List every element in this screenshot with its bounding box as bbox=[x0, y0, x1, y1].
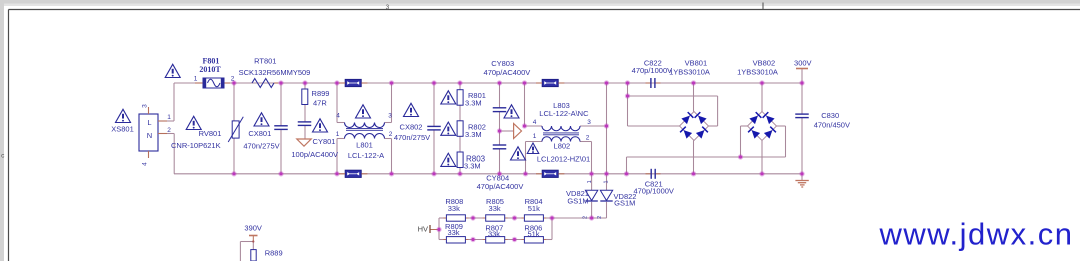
wire VB802 dc+ vert bbox=[761, 83, 763, 112]
svg-text:R899: R899 bbox=[312, 89, 330, 98]
warning triangle CY804b bbox=[511, 147, 526, 160]
label C821 value bbox=[633, 186, 673, 195]
warning triangle CX802 bbox=[404, 103, 419, 116]
node HV r3 bbox=[549, 215, 554, 220]
svg-text:51k: 51k bbox=[528, 204, 540, 213]
node VD821 bottom bbox=[589, 215, 594, 220]
svg-text:L: L bbox=[147, 118, 151, 127]
svg-text:2010T: 2010T bbox=[199, 65, 221, 74]
label R804 bbox=[525, 197, 543, 206]
wire top bus bbox=[174, 82, 802, 84]
label L802 pin2 bbox=[586, 134, 590, 141]
wire VB801 dc- vert bbox=[693, 141, 695, 174]
fusible link on top bus B2 bbox=[536, 79, 564, 86]
label VD822 value bbox=[614, 199, 635, 208]
thermistor RT801 bbox=[252, 79, 274, 88]
node ac1 corner bbox=[625, 93, 630, 98]
label VD821 bbox=[566, 189, 589, 198]
wire HV row bottom bbox=[439, 239, 552, 241]
capacitor C830 bbox=[795, 114, 809, 118]
svg-text:VB802: VB802 bbox=[753, 58, 776, 67]
warning triangle F801 bbox=[165, 64, 180, 77]
label CY804 value bbox=[477, 182, 524, 191]
svg-text:470p/1000V: 470p/1000V bbox=[632, 66, 672, 75]
svg-text:HV: HV bbox=[418, 225, 428, 234]
label VD822 pin2 bbox=[597, 216, 603, 219]
wire R899-CY801 branch bbox=[304, 83, 306, 139]
svg-text:3.3M: 3.3M bbox=[465, 130, 482, 139]
pin stub C822 sides bbox=[646, 82, 661, 84]
wire VB802 left frame bbox=[741, 126, 748, 157]
label C830 bbox=[821, 111, 839, 120]
resistor R899 bbox=[302, 89, 308, 105]
node pin3/VD822 bbox=[604, 123, 609, 128]
label RV801 bbox=[199, 129, 222, 138]
diode VD821 bbox=[585, 190, 597, 201]
wire HV port lead bbox=[430, 229, 439, 231]
wire L801 pin4 vert bbox=[337, 83, 345, 123]
svg-text:470n/275V: 470n/275V bbox=[243, 141, 279, 150]
wire node mid to arrow bbox=[500, 130, 514, 132]
svg-text:SCK132R56MMY509: SCK132R56MMY509 bbox=[239, 68, 311, 77]
label F801 pin2 bbox=[231, 75, 235, 82]
fuse F801 bbox=[203, 78, 224, 88]
svg-text:c: c bbox=[1, 153, 5, 160]
wire L802 pin2 lead bbox=[580, 142, 592, 174]
wire VD822 column bbox=[606, 83, 608, 190]
wire CY803-CY804 chain bbox=[499, 83, 501, 174]
svg-text:1YBS3010A: 1YBS3010A bbox=[669, 68, 710, 77]
capacitor CY803 bbox=[493, 108, 507, 112]
svg-text:1: 1 bbox=[167, 114, 171, 121]
wire L801 pin1 vert bbox=[337, 139, 345, 174]
label R899 value bbox=[313, 98, 327, 107]
fusible link on bottom bus B3 bbox=[339, 170, 367, 177]
label L801 pin2 bbox=[389, 131, 393, 138]
svg-text:470p/1000V: 470p/1000V bbox=[633, 186, 673, 195]
label XS801 pin4 bbox=[142, 162, 149, 166]
wire C830 branch bbox=[801, 83, 803, 180]
fusible link on bottom bus B4 bbox=[536, 170, 564, 177]
resistor R889 bbox=[251, 250, 256, 261]
capacitor CX801 bbox=[274, 126, 288, 130]
warning triangle CY801 bbox=[313, 119, 328, 132]
label CY801 bbox=[313, 137, 336, 146]
warning triangle L801 bbox=[356, 105, 371, 118]
label R808 bbox=[445, 197, 463, 206]
svg-text:2: 2 bbox=[389, 131, 393, 138]
label F801 pin1 bbox=[194, 75, 198, 82]
label F801 bbox=[203, 57, 220, 66]
svg-text:2: 2 bbox=[597, 216, 603, 219]
label C821 bbox=[645, 179, 663, 188]
wire 300V drop bbox=[801, 69, 803, 84]
label R801 value bbox=[465, 99, 482, 108]
label R809 bbox=[445, 222, 463, 231]
resistor R805 bbox=[486, 215, 505, 221]
choke L801 core bbox=[346, 128, 383, 130]
wire VB801 ac1 branch bbox=[628, 83, 718, 126]
svg-text:3.3M: 3.3M bbox=[465, 99, 482, 108]
warning triangle L802 bbox=[527, 143, 539, 154]
svg-text:2: 2 bbox=[583, 216, 589, 219]
label C822 bbox=[644, 58, 662, 67]
capacitor CX802 bbox=[427, 126, 441, 129]
svg-text:470p/AC400V: 470p/AC400V bbox=[477, 182, 524, 191]
label CX802 value bbox=[394, 133, 430, 142]
label CX801 bbox=[248, 129, 271, 138]
wire CX802 branch bbox=[433, 83, 435, 174]
label XS801 pin2 bbox=[167, 127, 171, 134]
label L801 bbox=[356, 141, 373, 150]
label VD821 pin1 bbox=[587, 180, 593, 183]
choke L801 top winding bbox=[345, 123, 385, 128]
resistor R807 bbox=[486, 237, 505, 243]
pin stubs HV resistors bbox=[443, 218, 546, 240]
svg-text:1: 1 bbox=[603, 180, 609, 183]
label L801 pin3 bbox=[388, 113, 392, 120]
svg-text:LCL-122-A: LCL-122-A bbox=[348, 151, 384, 160]
svg-text:RV801: RV801 bbox=[199, 129, 222, 138]
watermark bbox=[879, 217, 1074, 252]
label XS801 pin3 bbox=[142, 104, 149, 108]
label R803 value bbox=[464, 162, 481, 171]
label R807 value bbox=[488, 230, 500, 239]
svg-text:4: 4 bbox=[142, 162, 149, 166]
wire input N loop bbox=[167, 134, 174, 174]
svg-text:2: 2 bbox=[231, 75, 235, 82]
pin stub RT801 bbox=[274, 82, 278, 84]
label R808 value bbox=[448, 204, 460, 213]
svg-text:300V: 300V bbox=[794, 59, 812, 68]
svg-text:VB801: VB801 bbox=[685, 58, 708, 67]
svg-text:470n/450V: 470n/450V bbox=[814, 120, 850, 129]
label RT801 bbox=[254, 57, 276, 66]
label CY801 value bbox=[291, 150, 338, 159]
label RV801 value bbox=[171, 141, 221, 150]
label VB802 bbox=[753, 58, 776, 67]
wire HV right vert bbox=[551, 218, 553, 240]
svg-text:470n/275V: 470n/275V bbox=[394, 133, 430, 142]
wire L801 pin2 vert bbox=[385, 139, 392, 174]
label VB801 value bbox=[669, 68, 710, 77]
node HV port bbox=[436, 227, 441, 232]
svg-text:51k: 51k bbox=[527, 230, 539, 239]
earth ground bbox=[795, 181, 808, 188]
label C830 value bbox=[814, 120, 850, 129]
node CY mid bbox=[497, 128, 502, 133]
svg-text:LCL-122-A\NC: LCL-122-A\NC bbox=[539, 109, 589, 118]
label R805 bbox=[486, 197, 504, 206]
wire R801-R803 chain bbox=[459, 83, 461, 174]
svg-text:1: 1 bbox=[336, 131, 340, 138]
label VD821 pin2 bbox=[583, 216, 589, 219]
svg-text:2: 2 bbox=[586, 134, 590, 141]
svg-text:3: 3 bbox=[142, 104, 149, 108]
label R806 bbox=[524, 223, 542, 232]
wire VB801 dc+ vert bbox=[693, 83, 695, 112]
resistor R809 bbox=[446, 237, 465, 243]
warning triangle R801 bbox=[441, 91, 456, 104]
wire VD822 bottom lead bbox=[606, 202, 608, 218]
zone label c bbox=[1, 153, 5, 160]
label VB802 value bbox=[737, 68, 778, 77]
svg-text:L801: L801 bbox=[356, 141, 373, 150]
label R805 value bbox=[489, 204, 501, 213]
resistor R802 bbox=[457, 121, 463, 137]
svg-text:33k: 33k bbox=[488, 230, 500, 239]
svg-text:1: 1 bbox=[194, 75, 198, 82]
wire RV801 branch bbox=[233, 83, 235, 174]
choke L803 winding bbox=[542, 126, 580, 131]
resistor R803 bbox=[457, 152, 463, 168]
signal arrow bbox=[514, 124, 522, 139]
label R889 bbox=[265, 249, 283, 258]
label L802 value bbox=[537, 155, 590, 164]
label L801 value bbox=[348, 151, 384, 160]
label L802 pin1 bbox=[533, 133, 537, 140]
warning triangle CX801 bbox=[254, 113, 269, 126]
label R802 value bbox=[465, 130, 482, 139]
node VB802 frame bbox=[738, 154, 743, 159]
label CY804 bbox=[486, 173, 509, 182]
label L801 pin4 bbox=[336, 113, 340, 120]
diode VD822 bbox=[600, 190, 612, 201]
connector XS801 bbox=[139, 107, 167, 158]
label RT801 value bbox=[239, 68, 311, 77]
label L802 bbox=[554, 142, 571, 151]
svg-text:GS1M: GS1M bbox=[567, 197, 588, 206]
label L803 bbox=[553, 101, 570, 110]
earth arrow CY801 bbox=[297, 139, 311, 146]
svg-text:CY801: CY801 bbox=[313, 137, 336, 146]
label CX801 value bbox=[243, 141, 279, 150]
wire L803 pin4 feed bbox=[525, 83, 543, 126]
wire L801 pin3 vert bbox=[385, 83, 392, 123]
node L803 pin4 bbox=[522, 123, 527, 128]
svg-text:C830: C830 bbox=[821, 111, 839, 120]
svg-text:33k: 33k bbox=[489, 204, 501, 213]
wire bottom bus bbox=[174, 173, 802, 175]
label L803 pin4 bbox=[533, 119, 537, 126]
svg-text:3: 3 bbox=[386, 4, 390, 11]
zone label 3 bbox=[386, 3, 763, 11]
choke core L803-L802 bbox=[543, 133, 579, 135]
label CY803 value bbox=[484, 68, 531, 77]
label XS801 pin1 bbox=[167, 114, 171, 121]
pin stub fuse left bbox=[195, 82, 203, 84]
label C822 value bbox=[632, 66, 672, 75]
svg-text:2: 2 bbox=[167, 127, 171, 134]
wire C821 bypass loop bbox=[627, 157, 786, 174]
svg-text:www.jdwx.cn: www.jdwx.cn bbox=[879, 217, 1074, 252]
wire HV split vert bbox=[438, 218, 440, 240]
warning triangle R803 bbox=[441, 153, 456, 166]
svg-text:1: 1 bbox=[587, 180, 593, 183]
capacitor C821 bbox=[651, 169, 655, 179]
wire VB802 right frame bbox=[777, 126, 786, 157]
warning triangle XS801 bbox=[116, 109, 131, 122]
label VD822 bbox=[614, 192, 637, 201]
wire VB801 ac2 branch bbox=[628, 125, 680, 127]
wire 390V drop bbox=[252, 236, 254, 242]
wire L803 pin3 lead bbox=[580, 125, 607, 127]
svg-text:47R: 47R bbox=[313, 98, 327, 107]
power port 390V bbox=[244, 223, 262, 235]
label VB801 bbox=[685, 58, 708, 67]
resistor R804 bbox=[524, 215, 543, 221]
svg-text:3: 3 bbox=[587, 119, 591, 126]
svg-text:33k: 33k bbox=[448, 204, 460, 213]
bridge rectifier VB802 bbox=[748, 112, 777, 141]
choke L802 winding bbox=[542, 137, 580, 142]
svg-text:XS801: XS801 bbox=[111, 125, 134, 134]
label CX802 bbox=[400, 122, 423, 131]
choke L801 bottom winding bbox=[345, 134, 385, 139]
svg-text:RT801: RT801 bbox=[254, 57, 276, 66]
svg-text:CX801: CX801 bbox=[248, 129, 271, 138]
svg-text:CX802: CX802 bbox=[400, 122, 423, 131]
label VD822 pin1 bbox=[603, 180, 609, 183]
svg-text:LCL2012-HZ\01: LCL2012-HZ\01 bbox=[537, 155, 590, 164]
capacitor CY804 bbox=[493, 145, 507, 149]
wire L802 pin1 vert bbox=[526, 142, 543, 174]
fusible link on top bus B1 bbox=[339, 79, 367, 86]
bridge rectifier VB801 bbox=[680, 112, 709, 141]
warning triangle R802 bbox=[441, 122, 456, 135]
node HV r2 bbox=[512, 215, 517, 242]
capacitor C822 bbox=[651, 78, 655, 88]
svg-text:33k: 33k bbox=[447, 228, 459, 237]
port HV bbox=[418, 225, 430, 234]
resistor R806 bbox=[524, 237, 543, 243]
svg-text:3.3M: 3.3M bbox=[464, 162, 481, 171]
resistor R808 bbox=[446, 215, 465, 221]
svg-text:GS1M: GS1M bbox=[614, 199, 635, 208]
capacitor CY801 bbox=[298, 122, 312, 126]
label VD821 value bbox=[567, 197, 588, 206]
pin stub C821 sides bbox=[646, 173, 661, 175]
wire VD821 top lead bbox=[591, 174, 593, 191]
power port 300V bbox=[794, 59, 812, 69]
node HV r1 bbox=[470, 215, 475, 242]
svg-text:100p/AC400V: 100p/AC400V bbox=[291, 150, 338, 159]
wire VD821 bottom lead bbox=[591, 202, 593, 218]
label R804 value bbox=[528, 204, 540, 213]
wire VB802 dc- vert bbox=[761, 141, 763, 174]
label L803 pin3 bbox=[587, 119, 591, 126]
label L801 pin1 bbox=[336, 131, 340, 138]
node 390V tee bbox=[252, 240, 254, 242]
label R809 value bbox=[447, 228, 459, 237]
varistor RV801 bbox=[228, 117, 243, 142]
label CY803 bbox=[491, 59, 514, 68]
svg-text:1YBS3010A: 1YBS3010A bbox=[737, 68, 778, 77]
junction dots bottom bus bbox=[231, 171, 804, 176]
pin stub fuse right bbox=[224, 82, 230, 84]
wire HV row top bbox=[439, 217, 607, 219]
warning triangle CY803b bbox=[504, 105, 519, 118]
resistor R801 bbox=[457, 90, 463, 106]
label XS801 bbox=[111, 125, 134, 134]
label R802 bbox=[468, 122, 486, 131]
wire input L loop bbox=[167, 83, 174, 121]
label R803 bbox=[466, 154, 486, 163]
label R899 bbox=[312, 89, 330, 98]
svg-text:CNR-10P621K: CNR-10P621K bbox=[171, 141, 221, 150]
svg-text:4: 4 bbox=[533, 119, 537, 126]
wire 390V branch bbox=[240, 242, 253, 261]
label L803 value bbox=[539, 109, 589, 118]
svg-text:CY803: CY803 bbox=[491, 59, 514, 68]
label R807 bbox=[485, 223, 503, 232]
wire CX801 branch bbox=[280, 83, 282, 174]
label R801 bbox=[468, 91, 486, 100]
svg-text:N: N bbox=[147, 131, 152, 140]
svg-text:470p/AC400V: 470p/AC400V bbox=[484, 68, 531, 77]
svg-text:R889: R889 bbox=[265, 249, 283, 258]
svg-text:390V: 390V bbox=[244, 223, 262, 232]
svg-text:L802: L802 bbox=[554, 142, 571, 151]
warning triangle RV801 bbox=[186, 116, 201, 129]
svg-text:1: 1 bbox=[533, 133, 537, 140]
svg-text:4: 4 bbox=[336, 113, 340, 120]
label R806 value bbox=[527, 230, 539, 239]
svg-text:3: 3 bbox=[388, 113, 392, 120]
junction dots top bus bbox=[231, 80, 804, 85]
label F801 value bbox=[199, 65, 221, 74]
